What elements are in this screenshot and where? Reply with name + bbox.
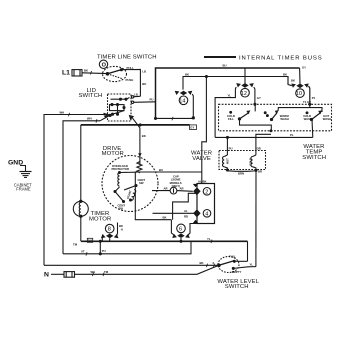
svg-text:PU: PU xyxy=(150,98,154,102)
timer contact 14 xyxy=(155,91,195,120)
timer contact 8 xyxy=(101,223,123,242)
svg-text:PUSH: PUSH xyxy=(126,78,134,82)
ground GND xyxy=(8,159,23,166)
svg-text:AL: AL xyxy=(184,209,188,213)
svg-text:SWITCH: SWITCH xyxy=(302,155,326,161)
svg-text:WASH: WASH xyxy=(323,117,331,121)
svg-text:INTERNAL TIMER BUSS: INTERNAL TIMER BUSS xyxy=(239,55,323,61)
svg-text:WH: WH xyxy=(87,117,92,121)
water level switch xyxy=(218,257,239,273)
svg-text:BK: BK xyxy=(84,69,88,73)
svg-text:VT: VT xyxy=(81,250,85,254)
water temp switch box xyxy=(219,104,332,131)
svg-text:RD: RD xyxy=(184,214,188,218)
svg-text:10: 10 xyxy=(296,91,302,97)
svg-text:6: 6 xyxy=(179,227,182,233)
lid switch bottom terminal xyxy=(130,116,134,119)
svg-text:TM: TM xyxy=(104,270,109,274)
svg-text:VALVE: VALVE xyxy=(192,156,211,162)
svg-text:4: 4 xyxy=(205,211,208,217)
wire WH second xyxy=(63,121,100,254)
outer bottom wire to water level switch xyxy=(44,264,219,266)
bottom heavy bus xyxy=(81,240,248,242)
terminal L1 xyxy=(62,69,70,76)
water temp switch label xyxy=(302,144,326,161)
svg-text:PL: PL xyxy=(290,133,294,137)
svg-text:MOTOR: MOTOR xyxy=(89,216,111,222)
elbow wire into block xyxy=(173,193,197,219)
wire drop to spin block xyxy=(202,77,207,184)
main winding xyxy=(118,173,120,187)
valve solenoid hot xyxy=(224,155,227,157)
svg-text:FULL: FULL xyxy=(229,254,236,258)
svg-text:BK: BK xyxy=(291,79,295,83)
terminal N xyxy=(44,271,49,278)
svg-text:LB: LB xyxy=(142,70,146,74)
svg-text:BU: BU xyxy=(223,63,227,67)
drive motor label xyxy=(102,146,124,157)
svg-text:SWITCH: SWITCH xyxy=(225,284,249,290)
svg-text:12: 12 xyxy=(241,91,247,97)
svg-text:PU: PU xyxy=(229,146,233,150)
wire BK cross (row2) xyxy=(183,77,288,90)
temp switch contact 1 xyxy=(254,105,256,111)
svg-text:LB: LB xyxy=(134,92,138,96)
svg-text:PROTECTOR: PROTECTOR xyxy=(112,167,130,171)
timer contact 6 xyxy=(171,220,197,243)
svg-text:AL BK: AL BK xyxy=(198,180,207,184)
heavy feed wire to boxed terminal xyxy=(81,124,190,126)
svg-text:TM: TM xyxy=(73,243,78,247)
svg-text:GY: GY xyxy=(190,126,194,130)
svg-text:BK: BK xyxy=(283,72,287,76)
svg-text:WH: WH xyxy=(60,110,65,114)
svg-text:2: 2 xyxy=(205,189,208,195)
svg-text:YL: YL xyxy=(228,93,232,97)
title TIMER LINE SWITCH xyxy=(97,55,157,61)
timer motor xyxy=(73,201,88,216)
wire ticks xyxy=(69,71,215,276)
svg-text:FRAME: FRAME xyxy=(16,187,31,192)
buss wire top xyxy=(156,68,300,118)
svg-text:BK: BK xyxy=(163,216,167,220)
timer contact 12 xyxy=(215,68,261,137)
svg-text:EMPTY: EMPTY xyxy=(232,270,242,274)
svg-text:AR: AR xyxy=(164,186,168,190)
lid switch xyxy=(108,94,132,121)
wire lid bottom to drive motor xyxy=(139,128,141,162)
svg-text:HOT: HOT xyxy=(226,158,230,164)
drive motor xyxy=(102,156,158,212)
svg-text:SW: SW xyxy=(139,181,144,185)
water valve label xyxy=(191,150,212,161)
svg-text:GY: GY xyxy=(302,65,306,69)
svg-text:WASH: WASH xyxy=(304,117,312,121)
svg-text:OR: OR xyxy=(257,146,261,150)
svg-text:BU: BU xyxy=(88,239,92,243)
svg-text:L1: L1 xyxy=(62,69,70,76)
valve bottom join wire xyxy=(227,170,256,173)
internal timer buss legend xyxy=(204,56,236,58)
svg-text:YL: YL xyxy=(250,262,254,266)
svg-text:GY: GY xyxy=(257,96,261,100)
wire L1 to timer line switch xyxy=(82,72,108,75)
svg-text:SW: SW xyxy=(119,207,124,211)
svg-text:MOTOR: MOTOR xyxy=(102,151,124,157)
svg-text:BR: BR xyxy=(258,169,262,173)
svg-text:BK: BK xyxy=(185,72,189,76)
svg-text:PU: PU xyxy=(102,249,106,253)
timer block terminals 2/4 xyxy=(197,184,215,224)
svg-text:H: H xyxy=(121,228,123,232)
water level switch label xyxy=(217,279,259,290)
svg-text:FILL: FILL xyxy=(228,117,234,121)
svg-text:BU: BU xyxy=(159,168,163,172)
svg-text:BRN: BRN xyxy=(238,171,244,175)
svg-text:N: N xyxy=(44,271,49,278)
water valve xyxy=(219,151,266,170)
return wire xyxy=(63,241,191,254)
lid switch internals xyxy=(111,98,130,100)
svg-text:COLD: COLD xyxy=(249,158,253,166)
wire valve to water level switch xyxy=(255,171,257,267)
svg-text:BK: BK xyxy=(200,261,204,265)
wire YL to water valve and PL to WTS xyxy=(215,136,313,138)
water temp switch internals xyxy=(227,104,331,137)
temp switch contact 3 xyxy=(318,110,322,114)
timer contact 10 xyxy=(288,68,316,104)
overload protector zigzag xyxy=(137,162,142,173)
svg-text:WASH: WASH xyxy=(280,117,288,121)
timer line switch xyxy=(103,66,127,81)
svg-text:P1: P1 xyxy=(312,96,316,100)
temp switch contact 2 xyxy=(264,112,266,114)
svg-text:SWITCH: SWITCH xyxy=(79,93,103,99)
motor terminal box xyxy=(135,172,202,220)
svg-text:AR: AR xyxy=(180,186,184,190)
svg-text:T1 GY: T1 GY xyxy=(303,100,311,104)
svg-text:O: O xyxy=(102,62,107,68)
svg-text:YL: YL xyxy=(207,237,211,241)
wire WH upper left xyxy=(44,115,108,266)
bus interconnect xyxy=(99,241,101,254)
capacitor xyxy=(170,175,182,188)
wire RD to terminal 4 xyxy=(153,212,195,214)
svg-text:8: 8 xyxy=(108,227,111,233)
cabinet frame label xyxy=(14,183,32,192)
wire switch to lid switch (LB/BK) xyxy=(121,69,140,96)
start winding xyxy=(131,190,136,201)
svg-text:BK: BK xyxy=(142,82,146,86)
valve solenoid cold xyxy=(253,155,256,157)
svg-text:BK: BK xyxy=(142,134,146,138)
svg-text:TIMER LINE SWITCH: TIMER LINE SWITCH xyxy=(97,55,157,61)
lid switch label xyxy=(79,88,103,99)
svg-text:14: 14 xyxy=(179,98,185,104)
